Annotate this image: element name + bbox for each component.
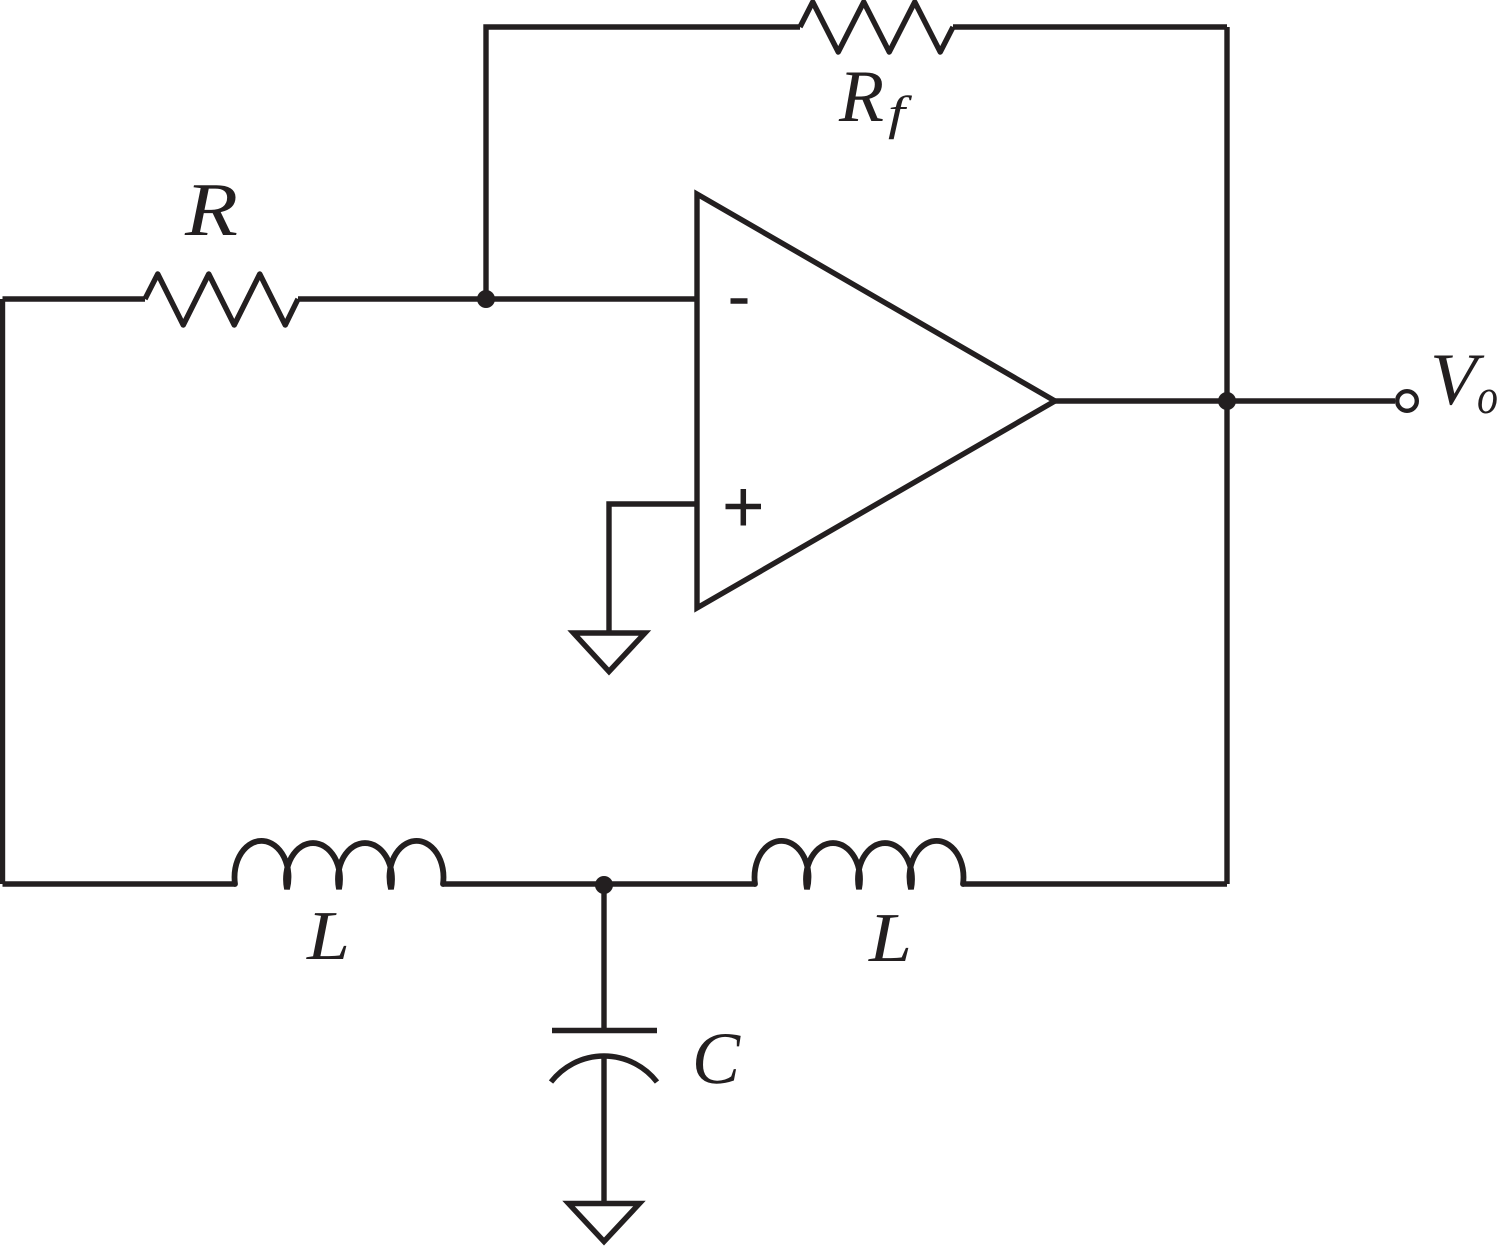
resistor R xyxy=(145,274,298,325)
capacitor C top plate xyxy=(552,1028,657,1033)
svg-text:C: C xyxy=(692,1018,742,1100)
wire bottom right horizontal xyxy=(963,881,1227,886)
wire noninverting input xyxy=(609,504,697,633)
wire output xyxy=(1055,398,1395,403)
node C junction dot (LC tank) xyxy=(595,876,613,894)
inductor L1 xyxy=(235,841,444,889)
plus sign at noninverting input xyxy=(726,489,762,526)
svg-text:R: R xyxy=(838,56,884,138)
op-amp U1 xyxy=(697,194,1055,608)
node A junction dot (inverting input) xyxy=(477,290,495,308)
ground (op-amp noninverting input) xyxy=(574,633,646,672)
svg-text:L: L xyxy=(306,898,350,975)
wire from R to inverting input xyxy=(298,296,697,301)
node B junction dot (output/right rail) xyxy=(1218,392,1236,410)
wire top right horizontal from Rf to right rail xyxy=(953,24,1227,29)
wire between node and L2 xyxy=(604,881,755,886)
svg-text:o: o xyxy=(1477,368,1498,424)
wire between L1 and node xyxy=(443,881,604,886)
ground (capacitor) xyxy=(569,1204,640,1242)
inductor L2 xyxy=(755,841,964,889)
capacitor C bottom curved plate xyxy=(551,1056,657,1082)
wire capacitor bottom lead xyxy=(601,1056,606,1203)
wire left input horizontal xyxy=(3,296,146,301)
terminal Vo open circle xyxy=(1397,391,1417,411)
svg-text:R: R xyxy=(184,168,238,252)
wire capacitor top lead xyxy=(601,884,606,1030)
resistor Rf xyxy=(800,2,953,52)
svg-text:f: f xyxy=(888,87,912,140)
wire right rail vertical xyxy=(1224,27,1229,884)
minus sign at inverting input xyxy=(731,298,748,304)
svg-text:L: L xyxy=(868,900,912,977)
wire left rail vertical xyxy=(0,299,5,884)
wire top left horizontal from feedback corner to Rf xyxy=(486,27,800,299)
wire bottom left horizontal xyxy=(3,881,236,886)
